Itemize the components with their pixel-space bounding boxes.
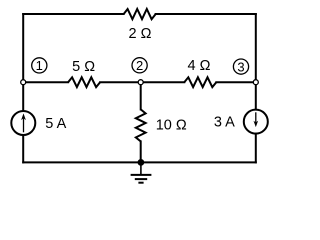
current source 5A [11,111,35,135]
wire right lower segment [255,134,257,163]
wire left lower segment [22,135,24,162]
wire middle 3 (node 2 to 4 ohm) [141,81,185,83]
resistor 5 ohm [68,77,100,87]
ground [131,162,152,182]
svg-text:4 Ω: 4 Ω [188,58,211,74]
wire middle 1 (left terminal to 5 ohm) [23,81,68,83]
node 1 label (circled 1) [32,58,47,73]
wire node 2 down to 10 ohm [140,82,142,109]
svg-text:10 Ω: 10 Ω [156,118,187,134]
junction dot at bottom of node 2 branch [138,159,145,166]
svg-text:5 Ω: 5 Ω [72,59,95,75]
wire bottom segment [23,161,256,163]
node 2 label (circled 2) [132,58,147,73]
resistor 2 ohm (top) [124,9,156,19]
svg-text:3: 3 [237,59,244,74]
wire top-left segment [23,13,123,15]
wire middle 4 (4 ohm to right terminal) [216,81,256,83]
wire middle 2 (5 ohm to node 2) [100,81,141,83]
terminal at node 2 (open circle) [138,80,143,85]
wire 10 ohm to bottom [140,141,142,162]
wire top-right segment [156,13,256,15]
svg-text:5 A: 5 A [45,116,66,132]
current source 3A [244,110,268,134]
svg-text:1: 1 [36,58,43,73]
svg-text:2: 2 [136,58,143,73]
svg-text:3 A: 3 A [214,115,235,131]
resistor 10 ohm [136,109,146,141]
terminal at node 3 (open circle on right wire) [253,80,258,85]
resistor 4 ohm [184,77,216,87]
wire right upper segment [255,14,257,110]
svg-text:2 Ω: 2 Ω [129,26,152,42]
wire left upper segment [22,14,24,111]
terminal at node 1 (open circle on left wire) [21,80,26,85]
node 3 label (circled 3) [233,59,248,74]
